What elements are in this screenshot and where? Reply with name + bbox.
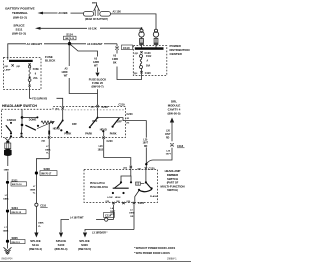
svg-text:PARK: PARK <box>85 133 92 136</box>
rheostat (panel dimmer) <box>37 121 55 136</box>
splice S114 junction dot <box>68 42 71 45</box>
fusible link 1 (left) <box>139 27 144 47</box>
switch output pin to panel lamps <box>42 136 51 142</box>
svg-text:18BK: 18BK <box>30 189 36 191</box>
splice S311 <box>6 178 27 186</box>
svg-text:S308: S308 <box>44 167 51 171</box>
ground <box>4 243 12 254</box>
node FUSE BLOCK FUSE 20 label <box>89 77 107 88</box>
splice S308 <box>35 167 57 176</box>
svg-text:C114: C114 <box>105 214 112 218</box>
node FUSE BLOCK title <box>45 55 56 63</box>
switch blade CARGO <box>6 119 16 137</box>
node HEADLAMP DIMMER SWITCH label <box>161 169 185 192</box>
svg-text:L20: L20 <box>143 139 148 141</box>
page footer <box>0 257 191 261</box>
headlamp switch input pin <box>55 107 64 111</box>
wire down to splice S11A <box>34 206 44 237</box>
wire A0 12K to splice S111 <box>35 26 142 30</box>
svg-text:8W-70-17: 8W-70-17 <box>41 174 52 176</box>
fuse block output pin <box>29 81 31 86</box>
svg-text:LAMP: LAMP <box>5 69 12 72</box>
svg-text:RD: RD <box>166 137 170 139</box>
wire from panel output down and jog to splice S308 <box>36 139 51 171</box>
svg-text:20A: 20A <box>33 77 38 80</box>
headlamp switch inner edge <box>55 109 126 111</box>
svg-text:(PART OF: (PART OF <box>167 181 179 184</box>
svg-text:CARGO: CARGO <box>7 119 16 122</box>
wire L4 18VT/WT high beam <box>108 205 116 220</box>
svg-text:50A: 50A <box>146 65 151 68</box>
svg-text:C118: C118 <box>177 144 184 148</box>
wire to right edge exit <box>120 113 134 124</box>
svg-text:* WITH POWER DOOR LOCKS: * WITH POWER DOOR LOCKS <box>134 252 170 255</box>
svg-text:J988W-1: J988W-1 <box>167 257 177 260</box>
svg-text:8W50-P04: 8W50-P04 <box>2 259 14 261</box>
svg-text:(20): (20) <box>116 201 120 203</box>
svg-text:L4 18VT/WT: L4 18VT/WT <box>70 217 84 220</box>
wire A3 10DG/WT right segment <box>70 42 118 46</box>
svg-text:18VT: 18VT <box>166 154 172 156</box>
svg-text:WT: WT <box>94 65 98 68</box>
svg-text:C220: C220 <box>127 113 134 116</box>
svg-text:* WITHOUT POWER DOOR LOCKS: * WITHOUT POWER DOOR LOCKS <box>134 247 175 250</box>
svg-text:A3 10DG/WT: A3 10DG/WT <box>87 42 103 46</box>
svg-text:18BK: 18BK <box>4 169 10 171</box>
svg-text:DOME: DOME <box>29 118 37 121</box>
splice S805 <box>6 236 25 244</box>
node SPLICE S111 label <box>12 23 26 35</box>
svg-text:C110: C110 <box>123 46 130 50</box>
fusible link 2 (right) <box>153 29 158 47</box>
splice S304 <box>6 206 26 214</box>
svg-text:SWITCH: SWITCH <box>167 177 178 181</box>
svg-text:MULTI-FUNCTION: MULTI-FUNCTION <box>161 185 185 188</box>
svg-text:A3 10DG/WT: A3 10DG/WT <box>27 42 43 46</box>
svg-text:OFF: OFF <box>117 121 122 124</box>
wire to splice S311 <box>7 172 9 181</box>
svg-text:(F): (F) <box>127 122 130 124</box>
wire L20 18VT from switch right edge <box>126 121 149 168</box>
wire from fuse 20 down to headlamp switch <box>97 89 99 105</box>
svg-text:18LB: 18LB <box>98 149 104 151</box>
svg-text:F102: F102 <box>146 56 152 58</box>
wire F23 18PK/YB to headlamp switch <box>30 87 63 107</box>
svg-text:14BK: 14BK <box>3 197 9 200</box>
svg-text:(8W-50-7): (8W-50-7) <box>91 85 103 89</box>
switch output pin to dimmer <box>103 132 114 143</box>
svg-text:HEAD: HEAD <box>53 128 60 131</box>
svg-text:RD: RD <box>144 146 148 148</box>
battery clamp terminal symbol <box>83 1 110 21</box>
dimmer input pin C220 <box>138 167 156 171</box>
switch pole D blade <box>110 118 123 136</box>
wire label A3 14RD BK <box>112 55 118 65</box>
wire from S114 down joining pole C feed <box>61 45 97 93</box>
connector C110 (top) <box>115 44 132 50</box>
wire branch S114 to fuse 20 label <box>70 44 100 77</box>
wire A3 10DG/WT left segment to fuse block <box>8 42 70 60</box>
fuse block bus pin labels <box>5 64 22 71</box>
svg-text:(8W-50-4): (8W-50-4) <box>29 247 42 251</box>
headlamp dimmer switch box <box>84 170 158 203</box>
svg-text:C120: C120 <box>145 52 152 55</box>
svg-text:S114: S114 <box>66 32 73 36</box>
arrow up to DRL module <box>170 118 174 128</box>
svg-text:A0 12K: A0 12K <box>88 26 97 30</box>
svg-text:8W-21-5: 8W-21-5 <box>12 242 21 244</box>
svg-text:HEADLAMP SWITCH: HEADLAMP SWITCH <box>2 104 38 108</box>
node SPLICE S300 label <box>78 239 91 251</box>
svg-text:(20): (20) <box>106 201 110 203</box>
svg-text:FUSE 20: FUSE 20 <box>92 81 103 85</box>
switch pole C blade <box>85 117 119 136</box>
svg-text:18BK: 18BK <box>38 223 44 225</box>
svg-text:(20): (20) <box>127 201 131 203</box>
svg-text:FUSE: FUSE <box>33 69 40 71</box>
wire A3 from PDC to connector C110 <box>116 50 118 54</box>
svg-text:18VT: 18VT <box>165 134 171 136</box>
svg-text:8W-70-16: 8W-70-16 <box>12 184 22 186</box>
svg-text:HIGH: HIGH <box>115 197 121 199</box>
svg-text:OFF: OFF <box>92 120 97 123</box>
dimmer input pin (20) <box>123 166 132 170</box>
svg-text:(8W-15-3): (8W-15-3) <box>12 32 26 36</box>
footnote <box>134 247 175 255</box>
svg-text:BLOCK: BLOCK <box>45 59 56 63</box>
svg-text:PARK: PARK <box>110 133 117 136</box>
svg-text:18RD: 18RD <box>129 213 135 215</box>
switch pole C input pin <box>91 105 108 118</box>
wire L20 from switch to dimmer switch <box>98 139 131 166</box>
dimmer output pins <box>106 201 145 205</box>
wire A0 8BK to battery terminal <box>38 11 84 15</box>
wire label L20 18VT/RD <box>165 128 172 142</box>
junction L20 <box>145 163 147 165</box>
switch pole B blade <box>53 110 78 136</box>
dimmer optical horn blade <box>135 170 158 202</box>
wire label L7 18BK/YL <box>30 175 37 204</box>
svg-text:18BK: 18BK <box>45 149 51 151</box>
switch blade DOME <box>20 118 39 137</box>
svg-text:A0 8BK: A0 8BK <box>58 11 67 15</box>
svg-text:A2 12K: A2 12K <box>113 11 122 14</box>
park lamp bulb socket <box>4 143 12 171</box>
svg-text:PARK: PARK <box>64 132 71 135</box>
svg-text:F23 18PK/YB: F23 18PK/YB <box>32 97 47 100</box>
svg-text:(8W-15-2): (8W-15-2) <box>13 15 27 19</box>
connector C118 <box>170 143 184 148</box>
svg-text:C120: C120 <box>145 72 152 75</box>
svg-text:CENTER: CENTER <box>170 52 183 56</box>
svg-text:8W-70-15: 8W-70-15 <box>12 212 22 214</box>
svg-text:L3 18RD/OR *: L3 18RD/OR * <box>92 232 107 235</box>
svg-text:BK: BK <box>113 62 117 65</box>
svg-text:OFF: OFF <box>72 123 77 126</box>
node SPLICE S100 label <box>55 239 68 251</box>
svg-text:C220: C220 <box>138 202 145 205</box>
svg-text:18VT: 18VT <box>143 143 149 145</box>
headlamp switch box <box>2 107 126 138</box>
node BATTERY POSITIVE TERMINAL label <box>5 7 34 20</box>
svg-text:FLASH: FLASH <box>150 195 158 198</box>
wire L4 to splice S100 <box>59 217 105 238</box>
svg-text:(8W-50-5): (8W-50-5) <box>168 112 181 116</box>
wire A2 12K from clamp to PDC fusible link <box>111 11 157 30</box>
fuse block box <box>4 58 42 90</box>
PDC bus bar <box>135 47 164 50</box>
PDC output pin C120 <box>134 71 152 75</box>
dimmer beam select blade <box>107 168 132 199</box>
svg-text:PUSH LATCH: PUSH LATCH <box>90 182 105 185</box>
node DRL MODULE label <box>168 100 181 116</box>
svg-text:C219: C219 <box>119 104 126 107</box>
park lamp contact at switch edge <box>5 138 11 143</box>
svg-text:8W-70-15: 8W-70-15 <box>65 38 75 40</box>
svg-text:OR: OR <box>130 216 134 218</box>
svg-text:4BK: 4BK <box>92 1 97 4</box>
svg-text:14BK: 14BK <box>3 229 9 232</box>
svg-text:PUSH UNLATCH: PUSH UNLATCH <box>90 186 108 189</box>
fuse 20A element <box>28 63 39 81</box>
fuse block bus bar <box>9 60 33 62</box>
svg-text:C220: C220 <box>107 140 114 143</box>
svg-text:C220: C220 <box>149 168 156 171</box>
svg-text:(8W-50-4): (8W-50-4) <box>55 247 68 251</box>
svg-text:WT: WT <box>64 75 68 78</box>
fuse F102 50A inside PDC <box>140 55 152 69</box>
svg-text:(8W-50-5): (8W-50-5) <box>78 247 91 251</box>
splice S114 label box <box>64 32 77 42</box>
svg-text:C218: C218 <box>102 106 109 109</box>
switch pole A riser <box>21 109 39 126</box>
wire L3 18RD/OR low beam <box>83 205 135 238</box>
node POWER DISTRIBUTION CENTER label <box>170 44 190 56</box>
svg-text:(REAR OF BATTERY): (REAR OF BATTERY) <box>85 18 108 21</box>
wire label L7 14BK <box>3 184 9 209</box>
dimmer interior labels <box>90 182 108 189</box>
node SPLICE S11A label <box>29 239 42 251</box>
connector C110 (bottom) <box>35 203 48 207</box>
PDC bus pin labels <box>135 51 151 55</box>
power distribution center box <box>133 46 167 76</box>
svg-text:FUSE BLOCK: FUSE BLOCK <box>89 77 107 81</box>
wire label L7B 14BK <box>3 213 9 240</box>
svg-text:SWITCH): SWITCH) <box>167 189 178 192</box>
connector C114 on L4 <box>104 213 115 222</box>
